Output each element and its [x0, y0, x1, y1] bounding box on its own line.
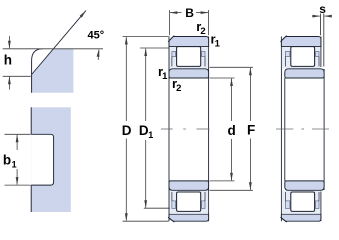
svg-text:1: 1	[215, 38, 221, 49]
outer ring lower (main view)	[169, 214, 209, 221]
left face line (displacement view)	[280, 37, 282, 222]
label s	[319, 2, 326, 16]
window cavity shading lower (main view)	[170, 191, 209, 214]
F dimension line with arrows	[249, 67, 252, 190]
centerline (displacement view)	[276, 128, 329, 130]
svg-text:2: 2	[176, 83, 181, 94]
chamfer detail body	[32, 49, 74, 93]
cage rail left upper (displacement view)	[285, 52, 290, 57]
h bottom extension line	[3, 75, 31, 77]
bore silhouette right (displacement view)	[323, 69, 325, 190]
window cavity shading upper (main view)	[170, 47, 209, 68]
svg-text:B: B	[185, 6, 194, 20]
D extension bottom	[123, 220, 169, 222]
B dimension line with arrows	[169, 11, 208, 14]
svg-text:h: h	[4, 52, 12, 67]
label 45deg	[88, 30, 105, 42]
chamfer detail corner radius outline	[32, 49, 43, 93]
window cavity shading upper (displacement view)	[282, 47, 321, 68]
cage prong lines lower (displacement view)	[285, 192, 319, 201]
inner ring upper (main view)	[169, 69, 209, 78]
D1 extension bottom	[144, 207, 170, 209]
groove detail bore edge lower	[30, 185, 32, 212]
right face line (main view)	[208, 37, 210, 222]
outer ring chamfer tick lower (main view)	[168, 217, 174, 222]
roller lower (displacement view)	[291, 192, 315, 211]
svg-text:d: d	[228, 123, 236, 138]
F extension top	[210, 66, 253, 68]
label h	[4, 52, 12, 67]
label D	[122, 123, 132, 138]
svg-text:1: 1	[12, 159, 17, 169]
centerline (main view)	[161, 128, 210, 130]
face reference arrow (up)	[97, 49, 100, 60]
label r2 lower	[172, 76, 181, 94]
s dimension line with arrows	[312, 15, 332, 18]
D1 extension top	[140, 47, 169, 49]
groove detail bore edge upper	[30, 107, 32, 134]
svg-text:2: 2	[200, 26, 205, 37]
cage rail left upper (main view)	[172, 52, 176, 57]
svg-text:s: s	[319, 2, 326, 16]
roller lower (main view)	[177, 192, 201, 211]
bore silhouette left (displacement view)	[284, 78, 286, 181]
label F	[247, 123, 255, 138]
cage rail left lower (main view)	[172, 201, 176, 209]
svg-text:D: D	[122, 123, 132, 138]
window cavity shading lower (displacement view)	[282, 191, 321, 214]
B extension lines	[169, 10, 208, 35]
label r2 top	[196, 19, 205, 37]
b1 dimension line with arrows	[16, 134, 19, 185]
label D1	[139, 123, 153, 140]
d extension top	[210, 77, 235, 79]
h bottom arrow (up)	[8, 76, 11, 89]
cage prong lines lower (main view)	[172, 192, 205, 201]
cage rail right lower (main view)	[202, 201, 205, 209]
s extension lines	[321, 14, 324, 67]
roller upper (displacement view)	[291, 47, 315, 67]
cage prong lines upper (main view)	[172, 57, 205, 67]
D extension top	[123, 36, 169, 38]
outer ring lower (displacement view)	[281, 214, 321, 221]
svg-text:1: 1	[148, 130, 153, 140]
label b1	[3, 152, 17, 169]
b1 bottom extension line	[5, 184, 31, 186]
svg-text:1: 1	[162, 71, 168, 82]
cage prong lines upper (displacement view)	[285, 57, 319, 67]
D dimension line with arrows	[125, 37, 128, 222]
h top arrow (down)	[8, 36, 11, 49]
chamfer 45deg cut line with arrow	[32, 11, 86, 75]
outer ring chamfer tick upper (displacement view)	[280, 36, 286, 42]
outer ring chamfer tick upper (main view)	[168, 36, 174, 42]
inner ring lower (main view)	[169, 181, 209, 190]
groove detail body	[31, 107, 71, 212]
D1 dimension line with arrows	[144, 48, 147, 208]
roller upper (main view)	[177, 47, 201, 67]
label d	[228, 123, 236, 138]
cage rail left lower (displacement view)	[285, 201, 290, 209]
svg-text:b: b	[3, 152, 11, 167]
h top extension line (face plane)	[3, 48, 103, 50]
left face line (main view)	[168, 37, 170, 222]
inner ring upper (displacement view)	[285, 69, 324, 78]
label B	[185, 6, 194, 20]
cage rail right lower (displacement view)	[316, 201, 320, 209]
cage rail right upper (displacement view)	[316, 52, 320, 57]
b1 top extension line	[5, 133, 31, 135]
right face line upper (displacement view)	[320, 37, 322, 68]
d extension bottom	[210, 180, 235, 182]
svg-text:45°: 45°	[88, 30, 105, 42]
d dimension line with arrows	[230, 78, 233, 181]
cage rail right upper (main view)	[202, 52, 205, 57]
svg-text:F: F	[247, 123, 255, 138]
groove outline	[31, 134, 53, 185]
right face line lower (displacement view)	[320, 192, 322, 222]
inner ring lower (displacement view)	[285, 181, 324, 190]
outer ring upper (displacement view)	[281, 37, 321, 47]
outer ring upper (main view)	[169, 37, 209, 47]
label r1 top right	[211, 32, 221, 50]
label r1 left	[158, 64, 168, 82]
outer ring chamfer tick lower (displacement view)	[280, 217, 286, 222]
F extension bottom	[210, 189, 253, 191]
